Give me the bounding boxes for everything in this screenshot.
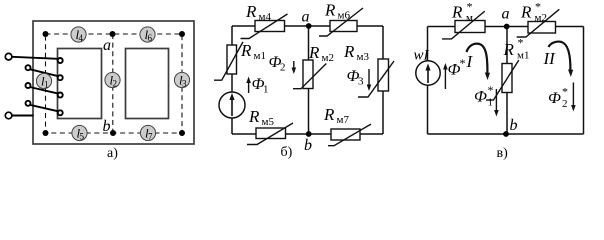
resistor RM6	[319, 8, 363, 36]
svg-text:a: a	[103, 37, 111, 54]
svg-text:R: R	[520, 3, 532, 22]
label RM7	[323, 105, 349, 126]
wire bottom	[232, 133, 383, 135]
svg-text:в): в)	[497, 146, 509, 161]
flux phi3 arrow	[347, 68, 372, 91]
svg-text:1: 1	[44, 80, 49, 90]
svg-text:2: 2	[562, 98, 568, 110]
svg-text:3: 3	[182, 79, 187, 89]
wire top (v)	[428, 26, 584, 28]
wire middle branch	[308, 26, 310, 134]
node b (part v)	[503, 117, 517, 137]
svg-text:wI: wI	[414, 48, 430, 64]
label l7	[140, 125, 155, 141]
svg-text:b: b	[510, 117, 518, 134]
wire right branch (v)	[583, 27, 585, 135]
flux phi1 arrow	[246, 76, 268, 96]
svg-text:*: *	[562, 85, 568, 99]
label RM*	[451, 0, 473, 24]
label RM1	[240, 41, 266, 62]
label l5	[72, 125, 87, 141]
core outer outline	[33, 21, 194, 144]
svg-text:2: 2	[280, 62, 286, 74]
label RM5	[248, 107, 274, 128]
svg-text:*: *	[460, 56, 466, 70]
label l4	[71, 27, 86, 43]
svg-text:a: a	[502, 6, 510, 23]
label l3	[174, 72, 189, 88]
label RM1*	[503, 36, 530, 62]
svg-text:м2: м2	[535, 12, 547, 24]
svg-text:*: *	[518, 36, 524, 50]
node a (part v)	[502, 6, 510, 30]
svg-text:R: R	[245, 2, 257, 21]
resistor RM1*	[486, 60, 519, 100]
svg-text:7: 7	[148, 132, 153, 142]
node a (part a)	[103, 37, 111, 54]
svg-text:II: II	[543, 49, 557, 68]
coil w	[12, 57, 63, 116]
resistor RM4	[241, 14, 288, 39]
flux phi2* arrow	[548, 83, 576, 112]
svg-text:м7: м7	[337, 114, 350, 126]
resistor RM3	[358, 59, 394, 97]
svg-text:м5: м5	[262, 116, 275, 128]
caption a)	[107, 146, 118, 161]
svg-text:Ф: Ф	[474, 89, 487, 106]
terminal top	[5, 53, 12, 60]
resistor RM2	[293, 60, 326, 89]
label l1	[36, 73, 51, 89]
svg-text:b: b	[103, 118, 111, 135]
svg-text:м3: м3	[357, 51, 370, 63]
svg-text:R: R	[324, 1, 336, 20]
loop I arrow	[466, 44, 491, 80]
label RM4	[245, 2, 271, 23]
svg-text:R: R	[308, 43, 320, 62]
svg-text:5: 5	[80, 132, 85, 142]
svg-text:а): а)	[107, 146, 118, 161]
caption b)	[281, 145, 293, 160]
wire left branch (v)	[427, 27, 429, 135]
svg-text:R: R	[451, 3, 463, 22]
svg-text:R: R	[323, 105, 335, 124]
label l6	[140, 27, 155, 43]
svg-text:м1: м1	[254, 50, 266, 62]
svg-text:3: 3	[358, 76, 364, 88]
svg-text:I: I	[466, 52, 474, 71]
svg-text:R: R	[240, 41, 252, 60]
svg-text:a: a	[302, 9, 310, 26]
svg-text:1: 1	[263, 84, 269, 96]
svg-text:м1: м1	[517, 50, 529, 62]
wire right branch	[382, 26, 384, 134]
flux phi1* arrow	[474, 83, 499, 117]
svg-text:R: R	[503, 40, 515, 59]
label RM2	[308, 43, 334, 64]
MMF source (part b)	[219, 92, 245, 118]
svg-text:2: 2	[113, 79, 118, 89]
svg-text:R: R	[248, 107, 260, 126]
loop II arrow	[543, 42, 574, 77]
flux mean path dashed loop	[46, 34, 183, 133]
label l2	[105, 72, 120, 88]
resistor RM1	[214, 42, 243, 80]
node b (part b)	[304, 131, 312, 154]
svg-text:м6: м6	[338, 10, 351, 22]
flux phi2 arrow	[269, 54, 297, 74]
label RM6	[324, 1, 350, 22]
node b (part a)	[103, 118, 111, 135]
wire bottom (v)	[428, 133, 584, 135]
label RM2*	[520, 0, 547, 24]
resistor RM2*	[517, 9, 560, 37]
svg-text:R: R	[343, 42, 355, 61]
svg-text:4: 4	[79, 33, 84, 43]
label RM3	[343, 42, 369, 63]
resistor RM7	[328, 124, 371, 146]
caption v)	[497, 146, 509, 161]
flux phi* arrow	[443, 56, 465, 89]
svg-text:*: *	[488, 83, 494, 97]
svg-text:м2: м2	[322, 52, 334, 64]
resistor RM*	[442, 11, 485, 39]
node a (part b)	[302, 9, 312, 29]
svg-text:Ф: Ф	[548, 90, 561, 107]
core left window	[58, 49, 102, 119]
label wI	[414, 48, 430, 64]
wire middle branch (v)	[506, 27, 508, 135]
wire left branch	[231, 26, 233, 134]
junction dots of flux path	[43, 31, 186, 136]
wire top	[232, 25, 383, 27]
svg-text:6: 6	[148, 33, 153, 43]
core right window	[126, 49, 169, 119]
svg-text:м4: м4	[259, 11, 272, 23]
MMF source wI (part v)	[416, 61, 440, 85]
svg-text:1: 1	[488, 97, 494, 109]
svg-text:м: м	[466, 12, 473, 24]
terminal bottom	[5, 112, 12, 119]
svg-text:b: b	[304, 137, 312, 154]
resistor RM5	[247, 123, 293, 145]
svg-text:б): б)	[281, 145, 293, 160]
